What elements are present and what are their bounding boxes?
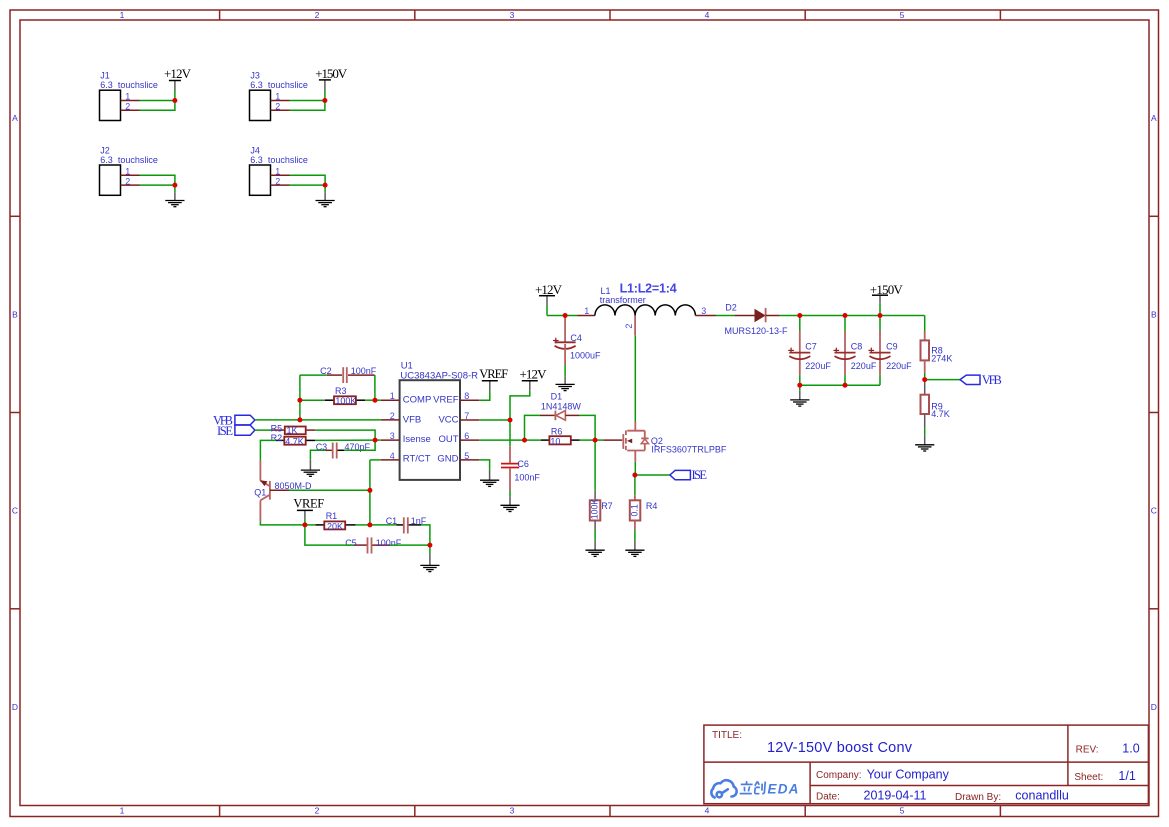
svg-text:Your Company: Your Company [867,768,950,782]
junction J3 [322,98,327,103]
svg-text:UC3843AP-S08-R: UC3843AP-S08-R [400,370,478,381]
connector J3 [250,71,308,121]
U1 pin 6 OUT [438,431,479,445]
svg-text:+12V: +12V [535,282,563,297]
svg-text:C4: C4 [570,333,582,343]
junction C8 bottom [843,383,848,388]
wire R7 to ground [594,530,596,541]
wire pin7 VCC [479,419,510,421]
svg-text:touchslice: touchslice [118,80,158,90]
wire C5 right [390,544,430,546]
junction C8 top [843,313,848,318]
wire D2 to output node [780,315,925,317]
svg-text:touchslice: touchslice [118,155,158,165]
junction R3 left [297,398,302,403]
junction R8/R9/VFB [922,377,927,382]
svg-text:D: D [1151,702,1157,712]
svg-text:C8: C8 [851,342,863,352]
svg-text:transformer: transformer [600,295,646,305]
svg-text:100nF: 100nF [376,538,402,548]
wire R6 left [525,439,542,441]
wire R2 right to pin3 [315,439,375,441]
svg-text:+150V: +150V [870,282,904,297]
wire R3 left [300,399,325,401]
svg-text:C7: C7 [805,342,817,352]
wire D1 right vertical [579,415,595,440]
svg-text:100nF: 100nF [514,473,540,483]
svg-text:1: 1 [584,306,589,316]
svg-text:6.3: 6.3 [100,155,113,165]
wire +12V to transformer [547,315,565,317]
svg-text:D1: D1 [551,392,563,402]
power +12V at C4 [535,282,563,316]
svg-text:3: 3 [701,306,706,316]
wire Q2 source down [634,462,636,475]
frame row letters left [12,113,18,712]
wire pin4 vertical [370,460,381,525]
wire Q1 base to pin4 vertical [289,489,370,491]
junction C4 [563,313,568,318]
wire R5 right to pin3 [315,430,375,440]
svg-text:touchslice: touchslice [268,155,308,165]
capacitor C9 220uF [869,316,913,375]
svg-text:12V-150V boost Conv: 12V-150V boost Conv [767,740,913,756]
svg-text:1.0: 1.0 [1122,742,1139,756]
ground R7 [586,541,605,557]
wire J1 pin2 [140,101,175,111]
wire Q1 emitter down [260,521,305,525]
capacitor C2 [320,366,377,383]
svg-text:J2: J2 [100,145,110,155]
resistor R7 [590,440,613,529]
wire R9 to ground [924,428,926,435]
svg-text:100K: 100K [335,396,356,406]
resistor R4 [630,475,658,529]
wire R8 to junction [924,373,926,380]
ground C4 [556,377,575,391]
net port VFB right [960,373,1002,387]
svg-text:2: 2 [315,806,320,816]
connector J2 [100,145,158,195]
svg-text:ISE: ISE [692,468,708,482]
junction VCC [508,418,513,423]
ground C5 [420,554,439,572]
svg-text:6.3: 6.3 [250,155,263,165]
junction pin1 [373,398,378,403]
svg-text:8: 8 [464,391,469,401]
diode D2 MURS120-13-F [725,302,789,336]
svg-text:ISE: ISE [217,424,233,438]
svg-text:1000uF: 1000uF [570,351,601,361]
net port ISE right [670,468,707,482]
svg-text:1/1: 1/1 [1118,769,1135,783]
svg-text:R2: R2 [271,433,283,443]
svg-text:VREF: VREF [433,395,459,406]
svg-text:C6: C6 [517,459,529,469]
resistor R6 [541,427,580,447]
svg-text:4: 4 [705,10,710,20]
junction R6/D1/R7 [593,438,598,443]
ground C6 [500,496,519,511]
ground J2 [165,193,184,207]
svg-text:1: 1 [390,391,395,401]
wire J2 pin2 [140,184,175,186]
connector J4 [250,145,308,195]
wire C5 left up to VREF junction [305,525,354,545]
transistor Q1 8050M-D [254,461,312,522]
svg-text:R4: R4 [646,501,658,511]
capacitor C5 [345,537,402,553]
svg-text:B: B [1151,310,1157,320]
svg-text:Q1: Q1 [254,487,266,497]
junction C7 top [797,313,802,318]
frame ticks bottom [220,806,1001,817]
svg-text:+12V: +12V [164,66,192,81]
junction VFB vertical [297,417,302,422]
wire pin6 OUT [479,439,524,441]
junction C7 bottom [797,383,802,388]
svg-text:D2: D2 [725,302,737,312]
svg-text:OUT: OUT [438,434,458,445]
svg-text:Isense: Isense [403,434,431,445]
U1 pin 8 VREF [433,391,479,405]
U1 pin 1 COMP [381,391,432,405]
frame ticks left [10,216,20,609]
svg-text:RT/CT: RT/CT [403,453,431,464]
wire C2 right down to pin1 [374,375,376,400]
wire J4 pin1 [290,175,326,185]
svg-text:4.7K: 4.7K [285,436,304,446]
op-amp controller U1 UC3843AP-S08-R [400,360,479,480]
ground R4 [625,541,644,557]
svg-text:100nF: 100nF [351,366,377,376]
frame ticks top [220,10,1001,20]
wire C3 left to ground [310,450,325,460]
svg-text:1: 1 [120,806,125,816]
net port ISE [217,424,255,438]
capacitor C3 [316,442,371,458]
resistor R9 4.7K [921,380,950,429]
svg-text:100K: 100K [590,499,600,520]
junction OUT/D1 [522,438,527,443]
svg-text:Company:: Company: [816,770,862,781]
svg-text:6: 6 [464,431,469,441]
svg-text:2: 2 [390,411,395,421]
svg-text:L1:L2=1:4: L1:L2=1:4 [620,282,677,296]
power +12V at J1 [164,66,192,101]
U1 pin 2 VFB [381,411,422,425]
logo EasyEDA cloud [711,780,736,797]
junction pin3 [373,438,378,443]
svg-text:C: C [1151,506,1157,516]
svg-text:VCC: VCC [438,414,458,425]
wire R3 right [365,399,381,401]
U1 pin 7 VCC [438,411,479,425]
svg-text:0.1: 0.1 [630,504,640,516]
capacitor C7 220uF [788,316,831,375]
capacitor C1 [386,516,427,534]
power VREF at pin8 [479,367,508,390]
wire J2 to ground [174,185,176,193]
svg-text:Date:: Date: [816,792,840,803]
junction J2 [172,183,177,188]
wire to VFB port [925,379,960,381]
title block table [704,725,1149,804]
svg-text:Drawn By:: Drawn By: [955,792,1001,803]
svg-text:Sheet:: Sheet: [1074,772,1103,783]
wire to ground C5 [429,545,431,554]
svg-text:J4: J4 [250,145,260,155]
power +150V at J3 [315,66,348,101]
svg-text:R5: R5 [271,423,283,433]
svg-text:3: 3 [510,806,515,816]
svg-text:5: 5 [900,806,905,816]
frame ticks right [1149,216,1159,609]
wire R1 right [356,524,370,526]
wire C4 to ground [564,365,566,377]
wire ISE port to R5 [255,429,272,431]
frame row letters right [1151,113,1157,712]
wire C1 right down [421,525,430,545]
svg-text:10: 10 [550,437,560,447]
svg-text:R3: R3 [335,386,347,396]
resistor R1 [315,511,355,531]
wire L1 pin3 to D2 [716,315,735,317]
resistor R2 [271,433,316,446]
svg-text:VFB: VFB [982,373,1002,387]
svg-text:TITLE:: TITLE: [712,730,742,741]
svg-text:R6: R6 [551,427,563,437]
logo glyphs 立创 [740,781,766,794]
wire J2 pin1 [140,175,175,185]
capacitor C8 220uF [834,316,877,375]
wire R1 left [305,524,316,526]
svg-text:GND: GND [437,453,458,464]
svg-text:6.3: 6.3 [250,80,263,90]
svg-text:220uF: 220uF [805,361,831,371]
ground C7 [790,390,809,406]
resistor R8 274K [921,331,953,373]
diode D1 1N4148W [540,392,581,421]
wire R2 left to Q1 collector [260,440,276,460]
svg-text:R1: R1 [326,511,338,521]
wire C7 C8 C9 bottoms [800,375,880,385]
wire J1 pin1 to +12V [140,100,175,102]
svg-text:4.7K: 4.7K [931,409,950,419]
svg-text:3: 3 [390,431,395,441]
svg-text:220uF: 220uF [851,361,877,371]
svg-text:VFB: VFB [403,414,421,425]
svg-text:220uF: 220uF [886,361,912,371]
ground pin5 [480,469,499,486]
net port VFB [213,413,255,427]
svg-text:VREF: VREF [293,496,324,510]
svg-text:A: A [1151,113,1157,123]
transistor Q2 IRFS3607TRLPBF [603,422,727,462]
svg-text:3: 3 [510,10,515,20]
svg-text:1N4148W: 1N4148W [541,401,582,411]
svg-text:5: 5 [464,451,469,461]
svg-text:VREF: VREF [479,367,508,381]
wire VCC up to +12V [510,391,530,420]
capacitor C6 [501,420,540,491]
svg-text:2: 2 [315,10,320,20]
wire R6 right [580,439,596,441]
svg-text:2019-04-11: 2019-04-11 [864,789,927,803]
wire to L1 pin1 [565,315,577,317]
capacitor C4 1000uF [553,316,601,365]
U1 pin 3 Isense [381,431,431,445]
wire pin8 to VREF [479,391,490,401]
svg-text:6.3: 6.3 [100,80,113,90]
frame column numbers bottom [120,806,905,816]
wire C6 to ground [509,491,511,497]
wire D1 left vertical [525,415,541,440]
ground J4 [316,193,335,207]
junction J4 [323,183,328,188]
svg-text:4: 4 [390,451,395,461]
svg-text:+12V: +12V [520,366,548,381]
ground C3 [301,460,320,477]
svg-text:C9: C9 [886,342,898,352]
junction C9 top / +150V [878,313,883,318]
svg-text:touchslice: touchslice [268,80,308,90]
resistor R3 [325,386,365,406]
ground R9 [915,435,934,451]
svg-text:1K: 1K [287,426,298,436]
wire C3 right up to pin3 [344,440,375,450]
svg-text:B: B [12,310,18,320]
wire pin5 GND [479,460,489,470]
svg-text:2: 2 [624,324,634,329]
wire J4 pin2 [290,184,326,186]
svg-text:COMP: COMP [403,395,432,406]
svg-text:5: 5 [900,10,905,20]
U1 pin 5 GND [437,451,479,465]
transformer L1 [578,286,717,335]
junction source/ISE [632,473,637,478]
wire C1 left [370,524,397,526]
svg-text:MURS120-13-F: MURS120-13-F [725,326,789,336]
wire left vertical C2/R3/VFB [299,375,301,420]
wire pin3 [375,439,381,441]
wire J3 pin1 to +150V [290,100,325,102]
svg-text:C: C [12,506,18,516]
svg-text:conandllu: conandllu [1015,789,1069,803]
power +150V at output [870,282,904,316]
power +12V at VCC [520,366,548,390]
svg-text:D: D [12,702,18,712]
wire C7 to ground [799,385,801,390]
svg-text:274K: 274K [931,354,952,364]
frame column numbers top [120,10,905,20]
junction base wire [367,488,372,493]
wire VFB port to pin2 [255,419,381,421]
wire gate net [595,439,603,441]
resistor R5 [271,423,316,435]
junction VREF/R1 [302,522,307,527]
svg-text:R7: R7 [601,501,613,511]
svg-text:REV:: REV: [1076,745,1099,756]
svg-text:IRFS3607TRLPBF: IRFS3607TRLPBF [651,445,727,455]
junction J1 [172,98,177,103]
svg-text:7: 7 [464,411,469,421]
wire Q2 drain up to transformer [634,335,636,421]
wire J3 pin2 [290,101,325,111]
svg-text:20K: 20K [327,521,343,531]
svg-text:EDA: EDA [768,782,800,797]
svg-text:1: 1 [120,10,125,20]
junction R1/C1 [367,522,372,527]
wire output to R8 [924,316,926,332]
wire R4 to ground [634,529,636,541]
wire to ISE port [635,474,670,476]
svg-text:A: A [12,113,18,123]
svg-text:C5: C5 [345,538,357,548]
power VREF at R1 [293,496,324,525]
svg-text:+150V: +150V [315,66,348,81]
wire C2 left [300,374,327,376]
svg-text:4: 4 [705,806,710,816]
connector J1 [100,71,158,121]
wire J4 to ground [324,185,326,193]
junction C5/C1 [427,543,432,548]
U1 pin 4 RT/CT [381,451,431,465]
